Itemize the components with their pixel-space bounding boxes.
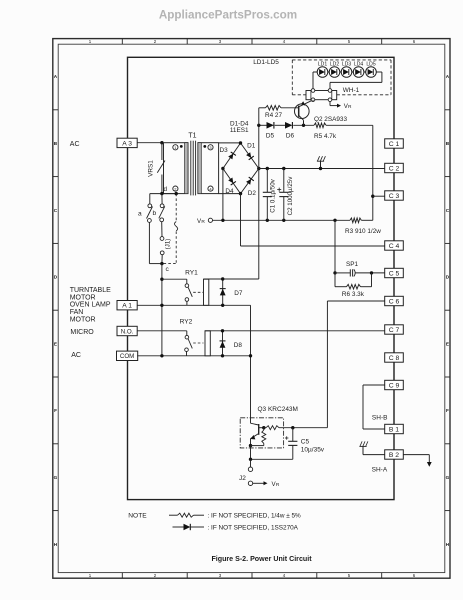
contact c gap: [160, 237, 164, 264]
svg-text:R: R: [276, 482, 280, 488]
node D7 top: [221, 277, 224, 280]
label LD1-LD5: [253, 59, 279, 66]
label D1: [247, 143, 256, 150]
chassis ground (C2 line): [317, 156, 326, 170]
svg-text:LD1: LD1: [318, 62, 328, 68]
resistor Q3 base (internal): [264, 426, 328, 430]
wire RY1 coil top rail: [204, 278, 259, 280]
varistor VRS1: [157, 143, 165, 194]
node RY1 branch: [160, 278, 163, 281]
wire VR rail: [213, 219, 373, 221]
wire ground to B2: [363, 454, 385, 456]
svg-text:LD3: LD3: [342, 62, 352, 68]
node D8 top: [221, 329, 224, 332]
node C1 bottom: [266, 219, 269, 222]
schematic frame: [128, 57, 395, 499]
label LD4: [354, 62, 364, 68]
label D1-D4 11ES1: [230, 121, 249, 135]
svg-text:RY2: RY2: [180, 319, 193, 326]
sheet outer border: [53, 39, 450, 579]
diode D7: [220, 279, 226, 305]
node C2 top: [282, 167, 285, 170]
svg-text:10µ/35v: 10µ/35v: [301, 446, 325, 453]
relay RY2 switch: [185, 335, 204, 355]
wire WH-1 right pad to VR arrow: [330, 102, 341, 108]
sounder SP1: [335, 269, 385, 276]
svg-text:R4 27: R4 27: [265, 112, 282, 119]
svg-text:R: R: [201, 219, 205, 225]
label AC (top): [70, 141, 80, 148]
svg-text:C1 0.1µ/50v: C1 0.1µ/50v: [270, 178, 277, 212]
svg-text:C2 1000µ/25v: C2 1000µ/25v: [287, 176, 294, 216]
diode D1 (top to right): [246, 152, 254, 160]
svg-text:COM: COM: [120, 353, 134, 360]
svg-text:b: b: [152, 210, 156, 217]
diode D4 (left to bottom): [228, 178, 236, 186]
Q3 dash-dot enclosure: [240, 418, 283, 448]
svg-text:T1: T1: [188, 133, 196, 140]
svg-text:: IF NOT SPECIFIED, 1SS270A: : IF NOT SPECIFIED, 1SS270A: [208, 524, 299, 531]
capacitor C5: [285, 428, 297, 460]
svg-text:AC: AC: [70, 141, 80, 148]
svg-text:D2: D2: [248, 190, 257, 197]
connector B1: [385, 424, 404, 433]
label SP1: [346, 261, 359, 268]
svg-text:D6: D6: [286, 132, 295, 139]
svg-text:C 3: C 3: [389, 193, 400, 200]
T1 pin 4 (secondary bottom): [208, 186, 213, 191]
svg-text:C 4: C 4: [389, 243, 400, 250]
svg-text:B 2: B 2: [389, 452, 399, 459]
transistor Q2: [295, 100, 314, 125]
connector C7: [385, 325, 404, 334]
label C1 0.1u/50v: [270, 178, 277, 212]
label D7: [234, 290, 243, 297]
svg-text:C 7: C 7: [389, 327, 400, 334]
relay RY1 switch: [185, 284, 203, 305]
svg-text:C 9: C 9: [389, 382, 400, 389]
label d: [163, 186, 167, 193]
label VR (J2 arrow): [272, 481, 280, 488]
svg-text:(J1): (J1): [165, 239, 172, 250]
connector C8: [385, 353, 404, 362]
connector C9: [385, 380, 404, 389]
node VR terminal: [208, 218, 212, 222]
wire LD5 wrap to WH-1: [330, 72, 382, 91]
svg-text:D: D: [446, 275, 450, 280]
label VRS1: [148, 160, 155, 177]
wire rectifier output to C2: [259, 168, 385, 170]
svg-text:C 1: C 1: [389, 141, 400, 148]
label Q2 2SA933: [314, 116, 347, 123]
label SH-B: [372, 415, 388, 422]
T1 pin 1 (primary top): [173, 145, 178, 150]
node plus rail / R4 tap: [257, 124, 260, 127]
svg-text:G: G: [54, 475, 58, 480]
wire T1 bottom to switches: [150, 193, 176, 195]
wire C6 to Q3 output: [327, 301, 384, 428]
resistor R3: [350, 218, 361, 223]
switch contact a: [147, 194, 153, 264]
relay RY1 coil: [204, 279, 209, 305]
svg-text:E: E: [54, 341, 57, 346]
svg-text:FAN: FAN: [70, 309, 84, 316]
svg-text:MOTOR: MOTOR: [70, 316, 96, 323]
label (J1): [165, 239, 172, 250]
transformer T1 primary winding: [164, 143, 189, 194]
wire A3 to T1: [137, 142, 163, 144]
node SP1 left: [333, 271, 336, 274]
wire C3 stub: [373, 195, 385, 197]
note diode text: [208, 524, 299, 531]
svg-text:WH-1: WH-1: [343, 87, 360, 94]
svg-text:D8: D8: [234, 342, 243, 349]
node Q3 base network: [262, 426, 265, 429]
wire plus rail: [259, 124, 373, 126]
note resistor text: [208, 513, 302, 520]
svg-text:: IF NOT SPECIFIED, 1/4w ± 5%: : IF NOT SPECIFIED, 1/4w ± 5%: [208, 513, 302, 520]
relay RY2 coil: [205, 331, 210, 356]
diode D8: [220, 331, 226, 356]
label LD1: [318, 62, 328, 68]
svg-text:d: d: [163, 186, 167, 193]
connector C1: [385, 139, 404, 148]
svg-text:R6 3.3k: R6 3.3k: [342, 291, 365, 298]
svg-text:A 3: A 3: [122, 140, 132, 147]
wire C5 bottom to emitter: [251, 446, 293, 460]
resistor R4: [266, 106, 282, 111]
label D2: [248, 190, 257, 197]
caption Figure S-2: [211, 555, 312, 563]
node junction A3/VRS1/T1: [160, 141, 163, 144]
svg-text:R5 4.7k: R5 4.7k: [314, 133, 337, 140]
note diode symbol: [173, 524, 205, 530]
svg-text:SH-B: SH-B: [372, 415, 388, 422]
svg-text:D7: D7: [234, 290, 243, 297]
resistor R5: [314, 123, 326, 128]
diode D3 (left to top): [228, 152, 236, 160]
svg-text:LD4: LD4: [354, 62, 364, 68]
svg-text:H: H: [446, 542, 450, 547]
diode D6: [285, 122, 292, 129]
T1 pin 2 (primary bottom, point d): [173, 186, 178, 191]
label D6: [286, 132, 295, 139]
label SH-A: [372, 466, 388, 473]
svg-text:NOTE: NOTE: [128, 513, 147, 520]
label b: [152, 210, 156, 217]
label RY1: [185, 269, 198, 276]
svg-text:RY1: RY1: [185, 269, 198, 276]
connector C3: [385, 191, 404, 200]
node C5 top tap: [291, 426, 294, 429]
wire T1 secondary bottom to bridge: [219, 193, 241, 195]
wire bridge right corner vertical (plus rail riser / RY1 coil feed): [258, 125, 260, 279]
label R3 910 1/2w: [345, 228, 381, 235]
svg-text:SH-A: SH-A: [372, 466, 388, 473]
connector C6: [385, 296, 404, 305]
resistor Q3 base-emitter (internal): [262, 428, 266, 446]
wire LED row: [313, 72, 376, 91]
dashed enclosure LD1-LD5: [292, 60, 391, 95]
label D5: [266, 132, 275, 139]
LED LD4: [353, 67, 364, 78]
transistor Q3: [250, 423, 263, 445]
connector N.O.: [117, 326, 137, 335]
svg-text:VRS1: VRS1: [148, 160, 155, 177]
capacitor C1: [263, 169, 272, 221]
T1 pin 3 (secondary top): [208, 145, 213, 150]
transformer T1 secondary winding: [198, 143, 219, 194]
label C2 1000u/25v: [287, 176, 294, 216]
wire bridge left corner to VR rail: [222, 169, 224, 221]
wire R4 branch riser: [258, 108, 260, 126]
sheet zone ticks and numbers: [53, 39, 450, 579]
connector C2: [385, 163, 404, 172]
svg-text:C 6: C 6: [389, 298, 400, 305]
label VR (WH-1 arrow): [344, 103, 352, 110]
LED LD3: [341, 67, 352, 78]
label c: [166, 266, 170, 273]
svg-text:F: F: [446, 408, 449, 413]
svg-text:LD1-LD5: LD1-LD5: [253, 59, 279, 66]
node C2 bottom: [282, 219, 285, 222]
label R6 3.3k: [342, 291, 365, 298]
connector C5: [385, 268, 404, 277]
label MICRO: [70, 329, 94, 336]
T1 secondary phasing dot: [203, 145, 206, 148]
label J2: [239, 475, 246, 482]
wire WH-1 left pad to Q2 emitter: [312, 100, 314, 102]
label Q3 KRC243M: [258, 406, 298, 413]
wire C4 line: [241, 245, 385, 247]
jumper J2: [248, 459, 252, 485]
svg-text:F: F: [54, 408, 57, 413]
transformer T1 core: [191, 141, 196, 196]
wire R5 to R3 vertical: [372, 125, 374, 220]
chassis ground (B2): [359, 441, 368, 454]
note resistor symbol: [169, 513, 204, 517]
node SP1 right: [370, 271, 373, 274]
wire switch a bottom: [149, 263, 162, 265]
label C5 10u/35v: [301, 439, 325, 454]
node D7 bottom: [221, 304, 224, 307]
wire relay coils to Q3 collector: [250, 305, 252, 423]
svg-text:D3: D3: [220, 147, 229, 154]
wire C9 to B1 loop (SH-B): [363, 385, 385, 429]
connector A3: [117, 138, 137, 147]
connector WH-1: [306, 89, 337, 102]
svg-text:TURNTABLE: TURNTABLE: [70, 287, 111, 294]
svg-text:D5: D5: [266, 132, 275, 139]
node A1 junction: [160, 304, 163, 307]
connector A1: [117, 301, 137, 310]
node Q3 emitter rail: [249, 444, 264, 447]
diode D5: [267, 122, 274, 129]
svg-text:J2: J2: [239, 475, 246, 482]
T1 primary phasing dot: [180, 145, 183, 148]
label D4: [225, 188, 234, 195]
node COM junction: [160, 354, 163, 357]
svg-text:Q3 KRC243M: Q3 KRC243M: [258, 406, 298, 413]
svg-text:E: E: [446, 341, 449, 346]
svg-text:D4: D4: [225, 188, 234, 195]
connector B2: [385, 450, 404, 459]
svg-text:D1: D1: [247, 143, 256, 150]
svg-text:SP1: SP1: [346, 261, 359, 268]
svg-text:A: A: [446, 74, 450, 79]
node SP1 riser tap: [333, 219, 336, 222]
svg-text:11ES1: 11ES1: [230, 127, 249, 134]
wire to RY1 switch: [162, 279, 187, 284]
svg-text:Figure S-2. Power Unit Circuit: Figure S-2. Power Unit Circuit: [211, 555, 312, 563]
svg-text:Q2 2SA933: Q2 2SA933: [314, 116, 347, 123]
node c junction: [160, 262, 163, 265]
label D8: [234, 342, 243, 349]
wire J2 to VR arrow: [253, 481, 268, 485]
wire T1 secondary top to bridge: [219, 142, 241, 144]
wire B2 to down arrow: [403, 455, 431, 467]
svg-text:MICRO: MICRO: [70, 329, 94, 336]
svg-text:LD5: LD5: [366, 62, 376, 68]
wire RY2 coil top rail to C7: [205, 330, 385, 332]
LED LD5: [366, 67, 377, 78]
node C3 tap: [371, 195, 374, 198]
label R4 27: [265, 112, 282, 119]
wire SP1 riser: [334, 220, 336, 273]
svg-text:B 1: B 1: [389, 426, 399, 433]
label RY2: [180, 319, 193, 326]
label VR (left): [197, 218, 205, 225]
svg-text:a: a: [138, 210, 142, 217]
label D3: [220, 147, 229, 154]
svg-text:AC: AC: [71, 352, 81, 359]
bridge rectifier D1-D4 diamond: [223, 143, 259, 194]
switch contact b: [159, 194, 165, 237]
connector C4: [385, 241, 404, 250]
wire N.O. to RY2 switch: [137, 331, 187, 336]
node J1 top: [175, 192, 178, 195]
svg-text:AppliancePartsPros.com: AppliancePartsPros.com: [159, 8, 297, 21]
labels TURNTABLE MOTOR OVEN LAMP FAN MOTOR: [70, 287, 111, 323]
svg-text:R: R: [348, 104, 352, 110]
svg-text:A 1: A 1: [122, 303, 132, 310]
label AC (bottom): [71, 352, 81, 359]
LED LD1: [317, 67, 328, 78]
node D8 bottom: [221, 354, 224, 357]
connector COM: [117, 351, 138, 360]
svg-text:G: G: [446, 475, 450, 480]
label LD3: [342, 62, 352, 68]
svg-text:OVEN LAMP: OVEN LAMP: [70, 302, 111, 309]
svg-text:C 5: C 5: [389, 270, 400, 277]
label a: [138, 210, 142, 217]
svg-text:C 8: C 8: [389, 355, 400, 362]
watermark AppliancePartsPros.com: [159, 8, 297, 21]
label LD2: [330, 62, 340, 68]
capacitor C2 (electrolytic): [277, 169, 288, 221]
diode D2 (bottom to right): [246, 177, 254, 185]
wire main left vertical: [161, 264, 163, 356]
svg-text:LD2: LD2: [330, 62, 340, 68]
jumper J1 dashed link: [164, 194, 178, 264]
svg-text:N.O.: N.O.: [121, 329, 134, 336]
wire base line: [259, 107, 299, 109]
bus along right frame edge: [393, 57, 395, 499]
node coil common at COM line: [249, 354, 252, 357]
node C1 top: [266, 167, 269, 170]
svg-text:MOTOR: MOTOR: [70, 294, 96, 301]
node Q2 collector junction: [302, 124, 305, 127]
resistor R6 (parallel loop): [335, 273, 372, 289]
label LD5: [366, 62, 376, 68]
wire A1 / RY1 coil bottom line: [137, 304, 250, 306]
svg-text:R3 910 1/2w: R3 910 1/2w: [345, 228, 381, 235]
bridge corner nodes: [221, 141, 260, 195]
label T1: [188, 133, 196, 140]
node T1 bottom corner junction: [160, 192, 163, 195]
note heading: [128, 513, 147, 520]
svg-text:C: C: [446, 208, 450, 213]
svg-text:C5: C5: [301, 439, 310, 446]
LED LD2: [329, 67, 340, 78]
svg-text:B: B: [446, 141, 450, 146]
wire bridge bottom to C4 line: [240, 194, 242, 246]
svg-text:C 2: C 2: [389, 165, 400, 172]
wire COM / RY2 coil bottom line: [137, 355, 250, 357]
node VR/bridge-minus: [221, 219, 224, 222]
label R5 4.7k: [314, 133, 337, 140]
label WH-1: [343, 87, 360, 94]
node emitter/C5 bottom: [249, 458, 252, 461]
